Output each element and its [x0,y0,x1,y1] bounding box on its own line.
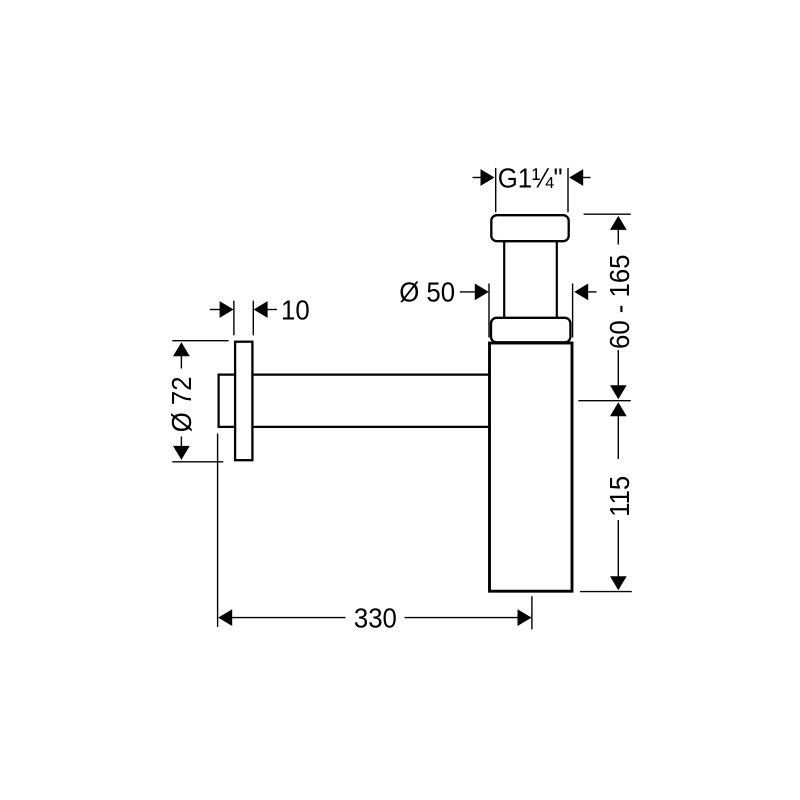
dimension 60 - 165 [578,214,631,401]
dimension 115 [580,414,632,592]
svg-text:G1¼": G1¼" [498,162,563,193]
horizontal outlet pipe [219,374,490,429]
svg-text:Ø 50: Ø 50 [399,276,455,307]
dimension 10 [210,301,277,336]
vertical inlet pipe [504,241,557,317]
dimension diameter 72 [172,341,228,462]
svg-text:60 - 165: 60 - 165 [604,255,635,349]
svg-text:10: 10 [281,295,310,326]
compression nut [491,318,570,343]
wall flange [235,342,252,461]
svg-text:115: 115 [604,476,635,517]
dimension G1 1/4" [473,168,591,212]
trap body [490,343,573,591]
svg-text:330: 330 [354,603,397,634]
top cap (thread collar) [491,215,568,241]
svg-text:Ø 72: Ø 72 [166,376,197,432]
dimension 330 [218,434,532,630]
